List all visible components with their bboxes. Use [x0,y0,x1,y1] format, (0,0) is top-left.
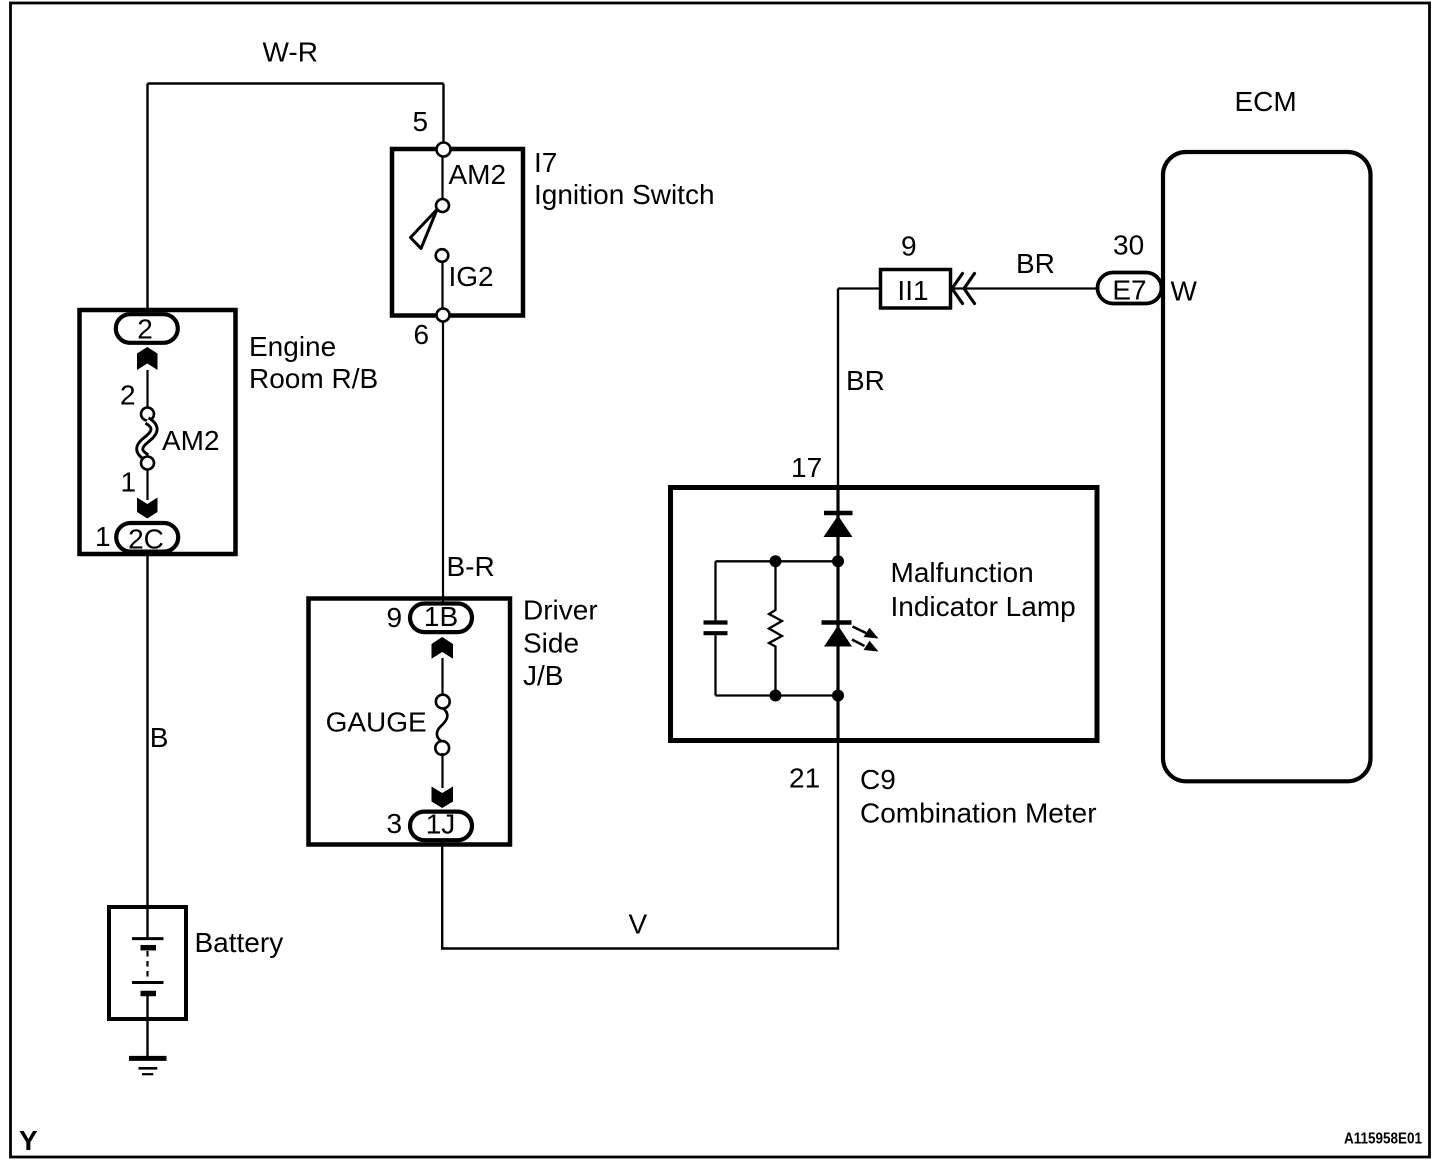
svg-text:W-R: W-R [263,37,318,68]
wire segment [146,469,148,500]
connector II1 box [881,270,951,309]
wire V run [442,742,838,949]
svg-text:21: 21 [789,762,820,793]
arrow up (J/B) [432,637,454,659]
battery internal wire top [146,907,148,938]
svg-text:Engine: Engine [249,331,336,362]
wire left vertical to Engine Room R/B [146,84,148,313]
svg-text:1J: 1J [426,809,456,840]
svg-text:Battery: Battery [195,927,284,958]
svg-text:2C: 2C [128,524,164,555]
connector oval 1J [410,812,472,841]
junction dot bottom resistor [770,690,782,702]
svg-text:9: 9 [387,602,403,633]
wire B-R vertical [442,321,444,602]
wire BR horizontal to II1 [838,287,880,289]
connector oval 2 [116,314,178,343]
svg-text:Malfunction: Malfunction [891,557,1034,588]
svg-text:9: 9 [901,231,917,262]
svg-text:5: 5 [413,106,429,137]
svg-text:17: 17 [791,452,822,483]
fuse GAUGE wave [437,708,447,742]
wire right vertical to ignition pin 5 [442,84,444,143]
svg-text:Ignition Switch: Ignition Switch [534,179,715,210]
fusible link AM2 (double wave) [140,421,154,458]
svg-text:II1: II1 [897,275,928,306]
wire BR vertical to meter pin 17 [837,289,839,490]
junction dot top main [832,555,844,567]
terminal 6 circle [437,309,450,322]
switch contact circle [436,199,449,212]
svg-text:IG2: IG2 [449,261,494,292]
connector oval 1B [410,604,472,633]
ground [129,1056,167,1061]
battery box [109,907,186,1019]
wire W-R horizontal [148,82,444,84]
wire ignition internal top [441,157,443,200]
svg-text:1: 1 [95,521,111,552]
resistor [769,561,782,695]
svg-text:J/B: J/B [523,660,563,691]
wire segment [441,658,443,694]
Engine Room R/B box [80,310,236,554]
svg-text:I7: I7 [534,147,557,178]
svg-text:W: W [1171,276,1198,307]
LED cathode bar [822,620,852,625]
switch lever [411,210,438,249]
wire ignition internal bottom [441,262,443,309]
svg-text:ECM: ECM [1235,86,1297,117]
svg-text:AM2: AM2 [449,159,507,190]
junction dot bottom main [832,690,844,702]
wire branch top [716,560,839,562]
svg-text:1B: 1B [424,601,458,632]
svg-text:E7: E7 [1112,275,1146,306]
svg-text:Room R/B: Room R/B [249,363,378,394]
svg-text:BR: BR [1016,248,1055,279]
svg-text:B: B [150,722,169,753]
svg-text:1: 1 [121,467,137,498]
svg-text:3: 3 [387,808,403,839]
fuse terminal circle top (GAUGE) [436,695,450,709]
wire segment [146,370,148,408]
battery dashed center [146,951,148,980]
arrow down (J/B) [432,787,454,809]
svg-text:2: 2 [137,314,153,345]
svg-text:Side: Side [523,628,579,659]
svg-text:BR: BR [846,365,885,396]
capacitor branch top wire [714,561,716,620]
svg-text:Y: Y [19,1125,38,1156]
LED emission arrow 2 [852,640,865,647]
svg-text:30: 30 [1113,230,1144,261]
svg-text:Driver: Driver [523,595,598,626]
svg-text:2: 2 [120,380,136,411]
battery plate short thick bottom [141,991,157,997]
connector oval 2C [116,523,178,552]
wire B vertical [146,554,148,905]
svg-text:A115958E01: A115958E01 [1344,1131,1422,1148]
fuse terminal circle top [141,408,154,421]
diode triangle [824,516,853,538]
arrow up [137,347,158,370]
wire battery to ground [146,1019,148,1056]
svg-text:C9: C9 [860,764,896,795]
ECM box [1163,152,1371,781]
wire segment [441,753,443,788]
capacitor plate top [704,620,728,624]
junction dot top resistor [770,555,782,567]
Driver Side J/B box [309,599,511,845]
diode cathode bar [824,511,853,516]
fuse terminal circle bottom (GAUGE) [435,741,449,755]
svg-text:Indicator Lamp: Indicator Lamp [891,591,1076,622]
svg-text:B-R: B-R [447,551,495,582]
arrow down [137,498,158,519]
battery plate long top [132,937,164,940]
LED triangle [824,626,852,647]
wire branch bottom [716,694,839,696]
svg-text:GAUGE: GAUGE [326,707,427,738]
battery plate long bottom [132,981,164,984]
svg-text:AM2: AM2 [162,425,220,456]
ignition switch I7 box [392,149,523,316]
capacitor branch bottom wire [714,635,716,695]
combination meter C9 box [671,488,1098,741]
svg-text:6: 6 [414,319,430,350]
capacitor plate bottom [704,631,728,635]
terminal 5 circle [437,143,451,157]
connector oval E7 [1098,273,1162,304]
svg-text:Combination Meter: Combination Meter [860,797,1097,828]
meter main wire [836,488,839,740]
fuse terminal circle bottom [141,457,154,470]
svg-text:V: V [629,909,648,940]
LED emission arrow 1 [853,627,867,634]
battery internal wire bottom [146,996,148,1019]
connector chevrons [952,274,975,304]
wire BR to E7 [951,287,1098,289]
switch contact circle IG2 [436,249,449,262]
battery plate short thick [141,945,157,951]
